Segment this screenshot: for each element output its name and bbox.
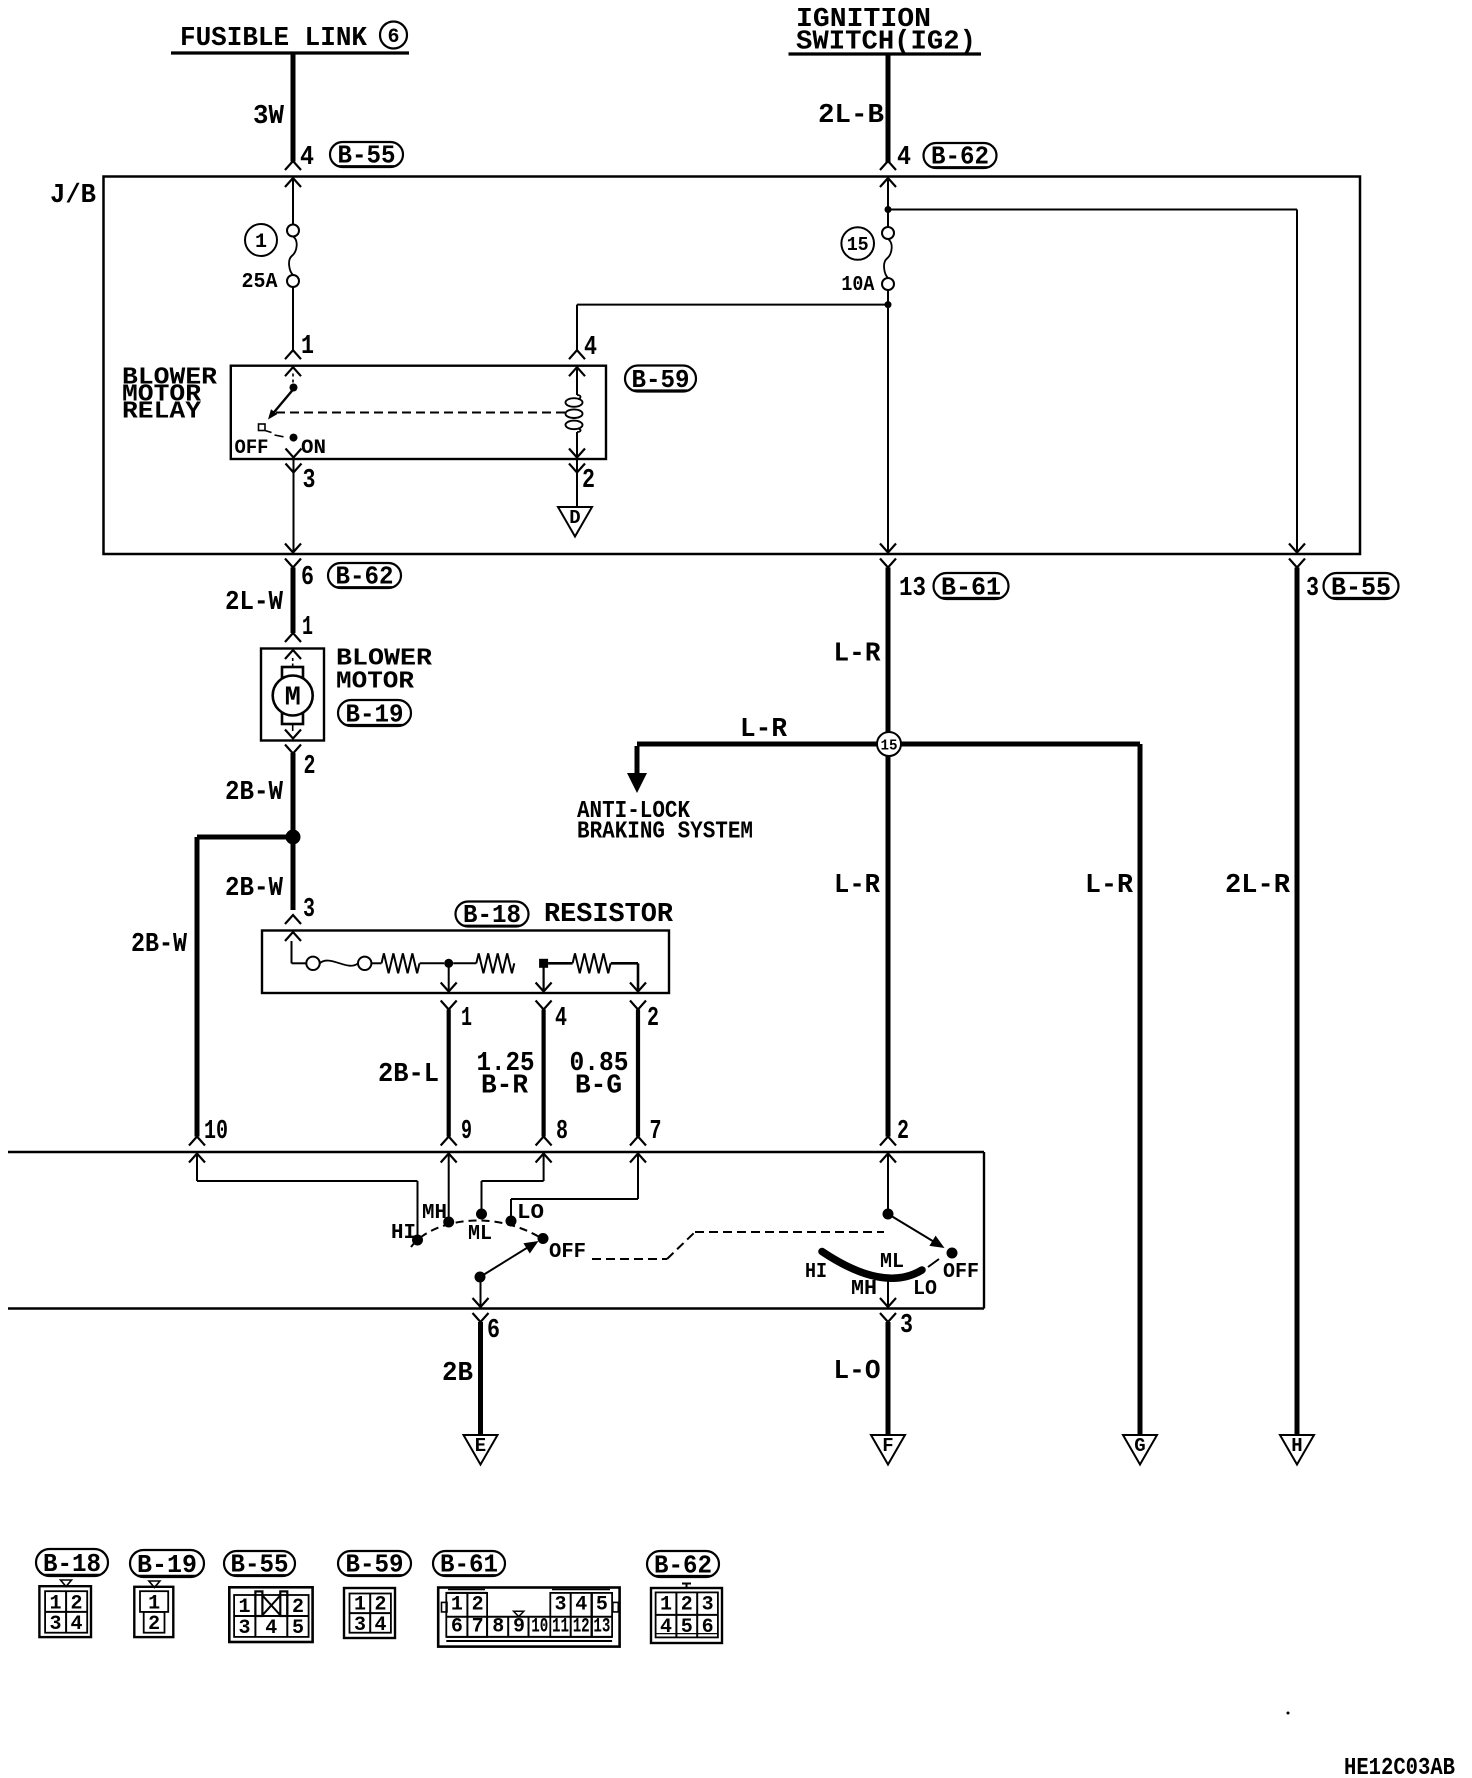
resistor element R3 bbox=[548, 953, 611, 973]
svg-text:HI: HI bbox=[805, 1261, 827, 1284]
wire into fuse 1 bbox=[292, 177, 294, 225]
wire L-R to ground G bbox=[1085, 744, 1140, 1436]
fuse 1 25A element bbox=[287, 225, 299, 288]
svg-text:9: 9 bbox=[513, 1616, 525, 1639]
svg-text:E: E bbox=[475, 1435, 486, 1457]
svg-text:3: 3 bbox=[49, 1613, 61, 1636]
svg-text:HI: HI bbox=[391, 1222, 416, 1245]
switch wire pin8 to ML bbox=[482, 1152, 544, 1212]
blower motor connector oval B-19 bbox=[338, 699, 411, 729]
svg-text:B-G: B-G bbox=[575, 1072, 622, 1102]
stray speck bbox=[1287, 1712, 1290, 1715]
svg-text:1: 1 bbox=[302, 613, 313, 643]
fuse 15 rating label 10A bbox=[841, 274, 874, 297]
svg-text:3: 3 bbox=[303, 466, 316, 496]
connector pin 6 (B-62) J/B exit bbox=[285, 544, 401, 594]
wire 2L-R to ground H bbox=[1225, 568, 1297, 1437]
svg-text:ML: ML bbox=[880, 1251, 904, 1274]
connector pin 3 (B-55) J/B exit bbox=[1289, 544, 1399, 605]
heater switch pin 3 exit bbox=[880, 1298, 913, 1341]
relay ON label bbox=[301, 437, 326, 460]
svg-text:4: 4 bbox=[660, 1616, 672, 1639]
switch arm right bbox=[888, 1214, 945, 1248]
svg-text:BRAKING SYSTEM: BRAKING SYSTEM bbox=[577, 819, 753, 846]
svg-text:HE12C03AB: HE12C03AB bbox=[1344, 1755, 1455, 1778]
svg-text:1: 1 bbox=[451, 1594, 463, 1617]
svg-text:13: 13 bbox=[899, 574, 926, 604]
resistor name label bbox=[544, 900, 674, 930]
legend connector B-59 label bbox=[338, 1550, 411, 1580]
svg-text:G: G bbox=[1134, 1435, 1145, 1457]
motor lead bottom bbox=[292, 724, 294, 731]
drawing number HE12C03AB bbox=[1344, 1755, 1455, 1778]
svg-text:L-R: L-R bbox=[834, 640, 882, 670]
legend connector B-62 body bbox=[651, 1584, 722, 1644]
wire 2L-W bbox=[225, 568, 293, 634]
svg-text:1: 1 bbox=[301, 332, 314, 362]
blower motor box bbox=[261, 649, 324, 741]
svg-text:6: 6 bbox=[387, 26, 399, 49]
svg-text:5: 5 bbox=[292, 1617, 304, 1640]
resistor output pin 2 bbox=[630, 983, 659, 1035]
connector pin 4 (B-62) at J/B top bbox=[880, 142, 997, 188]
relay ON contact bbox=[290, 434, 298, 442]
svg-text:10: 10 bbox=[204, 1117, 228, 1147]
switch wire pin7 to LO bbox=[511, 1152, 638, 1219]
svg-text:MOTOR: MOTOR bbox=[336, 669, 415, 696]
svg-text:1: 1 bbox=[461, 1004, 472, 1034]
svg-text:OFF: OFF bbox=[549, 1241, 586, 1264]
resistor element R2 bbox=[453, 953, 514, 973]
svg-text:2: 2 bbox=[647, 1004, 659, 1034]
junction 15 horizontal wire L-R bbox=[637, 715, 1140, 745]
selector dashed arc bbox=[411, 1220, 546, 1247]
svg-text:L-R: L-R bbox=[834, 871, 881, 901]
blower motor pin 2 bbox=[285, 730, 316, 783]
relay OFF label bbox=[235, 437, 269, 460]
relay pin 3 bbox=[286, 449, 316, 497]
heater switch pin 9 bbox=[441, 1117, 472, 1163]
switch pivot node right bbox=[883, 1209, 894, 1220]
svg-text:8: 8 bbox=[492, 1616, 504, 1639]
svg-text:11: 11 bbox=[552, 1616, 569, 1639]
resistor pin 3 bbox=[285, 895, 315, 941]
svg-text:3: 3 bbox=[554, 1594, 566, 1617]
ground E bbox=[464, 1435, 498, 1465]
svg-text:OFF: OFF bbox=[235, 437, 269, 460]
contact MH bbox=[422, 1202, 454, 1228]
legend connector B-62 label bbox=[647, 1550, 719, 1580]
relay actuation dashed link bbox=[276, 412, 566, 414]
svg-text:1: 1 bbox=[660, 1594, 672, 1617]
legend connector B-18 body bbox=[39, 1580, 91, 1637]
svg-text:ML: ML bbox=[468, 1223, 492, 1246]
ground G bbox=[1123, 1435, 1157, 1465]
svg-text:5: 5 bbox=[681, 1616, 693, 1639]
legend connector B-19 body bbox=[134, 1581, 173, 1637]
svg-text:F: F bbox=[882, 1435, 893, 1457]
switch pivot node left bbox=[475, 1272, 486, 1283]
power source title IGNITION SWITCH(IG2) bbox=[789, 5, 982, 58]
resistor connector oval B-18 bbox=[456, 900, 529, 930]
wire 2B-W motor to junction bbox=[225, 753, 293, 910]
svg-text:9: 9 bbox=[461, 1117, 472, 1147]
svg-text:6: 6 bbox=[451, 1616, 463, 1639]
contact OFF right bbox=[928, 1248, 979, 1285]
svg-text:3: 3 bbox=[238, 1617, 250, 1640]
power source title FUSIBLE LINK 6 bbox=[171, 22, 409, 55]
wire 2B-L bbox=[378, 1010, 449, 1137]
svg-text:2B-L: 2B-L bbox=[378, 1060, 439, 1090]
svg-text:D: D bbox=[569, 507, 580, 529]
wire 0.85 B-G bbox=[570, 1010, 639, 1137]
linkage dashed line bbox=[592, 1232, 884, 1259]
svg-text:12: 12 bbox=[573, 1616, 590, 1639]
svg-text:2: 2 bbox=[472, 1594, 484, 1617]
svg-text:13: 13 bbox=[593, 1616, 610, 1639]
relay name label bbox=[122, 365, 218, 426]
wire 2B to ground E bbox=[442, 1322, 481, 1436]
svg-text:3: 3 bbox=[702, 1594, 714, 1617]
svg-text:6: 6 bbox=[301, 563, 314, 593]
relay switch common lead bbox=[290, 374, 298, 392]
legend connector B-55 body bbox=[229, 1587, 312, 1642]
svg-text:4: 4 bbox=[374, 1614, 386, 1637]
svg-text:4: 4 bbox=[70, 1613, 82, 1636]
wire 2B-W junction to resistor bbox=[225, 874, 284, 904]
svg-text:6: 6 bbox=[487, 1316, 500, 1346]
svg-text:4: 4 bbox=[300, 143, 314, 173]
svg-text:H: H bbox=[1291, 1435, 1302, 1457]
wire to 3 B-55 exit bbox=[888, 210, 1297, 553]
svg-text:8: 8 bbox=[556, 1117, 568, 1147]
legend connector B-55 label bbox=[224, 1550, 295, 1580]
motor armature bbox=[273, 667, 313, 724]
resistor output pin 4 bbox=[536, 983, 567, 1035]
svg-text:3: 3 bbox=[900, 1311, 913, 1341]
svg-text:2B-W: 2B-W bbox=[225, 778, 284, 808]
legend connector B-18 label bbox=[36, 1549, 108, 1579]
wire relay pin3 to J/B exit bbox=[293, 459, 295, 553]
svg-text:3W: 3W bbox=[253, 102, 285, 132]
resistor input lead bbox=[292, 941, 307, 963]
svg-text:ON: ON bbox=[301, 437, 326, 460]
anti-lock braking system label bbox=[577, 798, 753, 846]
heater switch pin 10 bbox=[189, 1117, 228, 1163]
heater switch box bbox=[8, 1152, 984, 1309]
connector pin 13 (B-61) J/B exit bbox=[880, 544, 1009, 605]
svg-text:M: M bbox=[285, 684, 301, 714]
switch wire pin10 to HI bbox=[197, 1152, 418, 1238]
heater switch pin 6 exit bbox=[473, 1298, 501, 1346]
svg-text:2B-W: 2B-W bbox=[225, 874, 284, 904]
wire 2L-B ignition feed bbox=[886, 55, 891, 163]
svg-text:1: 1 bbox=[255, 231, 267, 254]
wire to tap 1 bbox=[420, 962, 445, 964]
svg-text:2B: 2B bbox=[442, 1359, 473, 1389]
wire 2B-W branch to heater switch pin 10 bbox=[131, 837, 295, 1137]
connector pin 4 (B-55) at J/B top bbox=[285, 141, 403, 188]
heater switch pin 7 bbox=[630, 1117, 662, 1163]
contact ML bbox=[468, 1209, 492, 1247]
svg-text:2L-R: 2L-R bbox=[1225, 871, 1291, 901]
svg-text:2: 2 bbox=[304, 752, 316, 782]
svg-text:4: 4 bbox=[265, 1617, 277, 1640]
svg-text:2: 2 bbox=[292, 1596, 304, 1619]
svg-text:2: 2 bbox=[582, 466, 595, 496]
svg-text:4: 4 bbox=[555, 1004, 567, 1034]
fuse 1 circled number bbox=[245, 224, 277, 256]
fuse 15 10A element bbox=[882, 227, 894, 290]
svg-text:15: 15 bbox=[881, 738, 898, 755]
svg-text:6: 6 bbox=[702, 1616, 714, 1639]
heater switch pin 2 bbox=[880, 1117, 909, 1163]
svg-text:FUSIBLE LINK: FUSIBLE LINK bbox=[180, 24, 368, 54]
relay pin 4 bbox=[569, 333, 597, 376]
blower motor pin 1 bbox=[285, 613, 313, 659]
svg-text:RELAY: RELAY bbox=[122, 399, 202, 426]
tap node pin 4 bbox=[539, 959, 548, 991]
blower motor relay box bbox=[231, 366, 606, 459]
switch wire pin2 to pivot bbox=[887, 1152, 889, 1212]
switch wire pin9 to MH bbox=[448, 1152, 450, 1220]
wire L-O to ground F bbox=[834, 1322, 889, 1436]
resistor output pin 1 bbox=[441, 983, 472, 1035]
svg-text:4: 4 bbox=[584, 333, 597, 363]
svg-text:7: 7 bbox=[472, 1616, 484, 1639]
svg-text:2: 2 bbox=[681, 1594, 693, 1617]
resistor element R1 bbox=[382, 953, 420, 973]
rotary labels bbox=[805, 1251, 937, 1301]
junction node 2B-W bbox=[286, 830, 301, 845]
wire 3W fusible link feed bbox=[291, 54, 296, 162]
junction node at B-62 entry bbox=[885, 206, 892, 213]
contact OFF left bbox=[538, 1233, 587, 1264]
svg-text:2L-W: 2L-W bbox=[225, 588, 284, 618]
wire relay pin2 to ground D bbox=[576, 459, 578, 508]
legend connector B-61 body bbox=[438, 1588, 619, 1647]
relay coil bbox=[566, 367, 583, 459]
svg-text:15: 15 bbox=[847, 234, 869, 256]
svg-text:J/B: J/B bbox=[50, 181, 96, 211]
wire fuse1 to relay pin1 bbox=[292, 287, 294, 350]
resistor box bbox=[262, 931, 669, 994]
svg-text:L-R: L-R bbox=[740, 715, 788, 745]
svg-text:2: 2 bbox=[897, 1117, 909, 1147]
fuse 1 rating label 25A bbox=[242, 271, 278, 294]
svg-text:3: 3 bbox=[354, 1614, 366, 1637]
svg-text:7: 7 bbox=[650, 1117, 662, 1147]
thermal fuse element bbox=[306, 957, 381, 970]
ground D bbox=[558, 507, 592, 537]
svg-text:3: 3 bbox=[303, 895, 315, 925]
junction node below fuse 15 bbox=[885, 301, 892, 308]
svg-text:MH: MH bbox=[851, 1278, 877, 1301]
svg-text:B-R: B-R bbox=[481, 1072, 529, 1102]
fuse 15 circled number bbox=[841, 227, 874, 260]
wire fuse15 to relay coil pin 4 bbox=[577, 305, 888, 350]
switch arm left bbox=[480, 1241, 539, 1277]
relay switch arm bbox=[259, 389, 294, 437]
svg-text:L-O: L-O bbox=[834, 1357, 881, 1387]
wire fuse15 down to 13 B-61 exit bbox=[887, 290, 889, 553]
contact HI bbox=[391, 1222, 423, 1246]
wire label L-R below junction bbox=[834, 871, 881, 901]
wire 1.25 B-R bbox=[477, 1010, 544, 1137]
wire to tap 2 bbox=[611, 963, 638, 991]
svg-text:2: 2 bbox=[148, 1613, 160, 1636]
wire L-R from 13 B-61 bbox=[834, 568, 889, 1137]
blower motor name bbox=[336, 646, 433, 696]
relay pin 2 bbox=[569, 449, 595, 497]
junction block J/B box bbox=[50, 177, 1360, 555]
svg-text:RESISTOR: RESISTOR bbox=[544, 900, 674, 930]
relay connector oval B-59 bbox=[625, 365, 696, 395]
svg-text:2L-B: 2L-B bbox=[818, 101, 884, 131]
wire label 3W bbox=[253, 102, 285, 132]
circled junction 15 bbox=[877, 732, 901, 756]
heater switch pin 8 bbox=[536, 1117, 568, 1163]
svg-text:L-R: L-R bbox=[1085, 871, 1134, 901]
legend connector B-19 label bbox=[130, 1550, 204, 1580]
svg-text:OFF: OFF bbox=[943, 1261, 979, 1284]
rotary contact arc bbox=[822, 1252, 922, 1308]
motor lead top bbox=[292, 658, 294, 667]
wire label 2L-B bbox=[818, 101, 884, 131]
tap node pin 1 bbox=[444, 959, 453, 991]
relay pin 1 bbox=[285, 332, 314, 376]
ground H bbox=[1280, 1435, 1314, 1465]
ground F bbox=[871, 1435, 905, 1465]
contact LO bbox=[506, 1202, 545, 1227]
legend connector B-59 body bbox=[344, 1588, 395, 1638]
svg-text:10A: 10A bbox=[841, 274, 874, 297]
svg-text:1: 1 bbox=[238, 1596, 250, 1619]
svg-text:4: 4 bbox=[897, 143, 911, 173]
legend connector B-61 label bbox=[433, 1550, 505, 1580]
svg-text:LO: LO bbox=[913, 1278, 937, 1301]
wire into fuse 15 bbox=[887, 180, 889, 227]
svg-text:25A: 25A bbox=[242, 271, 278, 294]
wire pivot to pin 6 bbox=[480, 1277, 482, 1307]
branch arrow to ABS bbox=[627, 746, 647, 793]
svg-text:5: 5 bbox=[596, 1594, 608, 1617]
svg-text:MH: MH bbox=[422, 1202, 447, 1225]
svg-text:LO: LO bbox=[517, 1202, 544, 1225]
svg-text:10: 10 bbox=[531, 1616, 548, 1639]
svg-text:2B-W: 2B-W bbox=[131, 930, 188, 960]
svg-text:3: 3 bbox=[1306, 574, 1319, 604]
svg-text:4: 4 bbox=[575, 1594, 587, 1617]
